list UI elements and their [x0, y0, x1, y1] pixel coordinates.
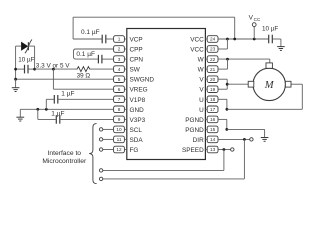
pin 1 box (left)	[114, 36, 127, 43]
pin 9 box (left)	[114, 116, 127, 123]
svg-text:CPP: CPP	[130, 47, 143, 54]
svg-text:1 µF: 1 µF	[61, 91, 74, 98]
svg-text:PGND: PGND	[185, 127, 204, 134]
pin 23 box (right)	[205, 46, 218, 53]
terminal DIR	[250, 138, 253, 141]
op-amp U1 motor driver IC body	[127, 29, 206, 160]
svg-text:VCC: VCC	[190, 47, 204, 54]
svg-text:2: 2	[118, 47, 121, 52]
wire W rail	[218, 58, 270, 60]
wire SWGND row	[16, 78, 114, 80]
pin 15 box (right)	[205, 126, 218, 133]
pin 10 box (left)	[114, 126, 127, 133]
wire pin23 join	[218, 39, 228, 49]
wire C4 to pin 7	[58, 98, 113, 100]
wire ground stem 1	[15, 79, 17, 88]
svg-text:VREG: VREG	[130, 87, 148, 94]
wire DIR drop	[243, 139, 245, 179]
junction V	[226, 83, 229, 86]
wire C3 left lead	[16, 68, 24, 70]
wire pin16 stub	[218, 119, 227, 129]
svg-text:3: 3	[118, 57, 121, 62]
svg-text:SDA: SDA	[130, 137, 144, 144]
svg-text:Microcontroller: Microcontroller	[42, 158, 87, 165]
terminal FG	[99, 148, 113, 151]
pin 22 box (right)	[205, 56, 218, 63]
junction VCC terminal	[253, 38, 256, 41]
wire DIR row	[218, 138, 250, 140]
pin 20 box (right)	[205, 76, 218, 83]
label Interface to Microcontroller	[42, 150, 87, 165]
wire VREG drop	[52, 69, 54, 89]
pin 17 box (right)	[205, 106, 218, 113]
pin 14 box (right)	[205, 136, 218, 143]
wire zener anode	[16, 45, 22, 47]
motor M1 body	[253, 68, 285, 100]
svg-text:18: 18	[210, 97, 216, 102]
svg-text:8: 8	[118, 107, 121, 112]
wire pin19 stub	[218, 88, 228, 90]
junction VREG tap	[52, 68, 55, 71]
wire pin20 stub	[218, 78, 228, 80]
wire C4 jog	[46, 99, 54, 109]
svg-text:14: 14	[210, 137, 216, 142]
junction W	[226, 58, 229, 61]
svg-text:10: 10	[116, 127, 122, 132]
pin 5 box (left)	[114, 76, 127, 83]
svg-text:4: 4	[118, 67, 121, 72]
net label VCC	[249, 14, 261, 21]
zener diode D1	[21, 40, 32, 54]
svg-text:V3P3: V3P3	[130, 117, 146, 124]
ground G3	[277, 47, 285, 51]
ground G1	[12, 88, 20, 92]
wire U rail	[227, 84, 302, 109]
junction C4-GND	[45, 108, 48, 111]
wire VREG row	[53, 88, 113, 90]
junction SPEED	[223, 148, 226, 151]
svg-text:SCL: SCL	[130, 127, 143, 134]
wire C2 to pin 3	[102, 58, 113, 60]
wire W to motor	[269, 59, 271, 63]
wire GND row	[20, 109, 113, 117]
wire C3 right lead	[29, 68, 35, 70]
terminal SDA	[99, 138, 113, 141]
svg-text:9: 9	[118, 117, 121, 122]
svg-text:V1P8: V1P8	[130, 97, 146, 104]
svg-text:17: 17	[210, 107, 216, 112]
svg-text:W: W	[198, 57, 205, 64]
capacitor C5 plates 1uF	[56, 115, 60, 124]
svg-text:M: M	[264, 80, 275, 91]
wire 3.3V rail	[34, 46, 36, 69]
svg-text:DIR: DIR	[193, 137, 204, 144]
wire pin21 join	[218, 59, 228, 69]
capacitor C2 plates	[98, 55, 102, 64]
svg-text:20: 20	[210, 77, 216, 82]
svg-text:15: 15	[210, 127, 216, 132]
terminal SPEED	[231, 148, 234, 151]
wire VCC terminal stem	[253, 26, 255, 39]
ground G2	[16, 117, 24, 121]
svg-text:16: 16	[210, 117, 216, 122]
wire zener cathode	[28, 45, 34, 47]
terminal DIR input + wire	[99, 177, 244, 180]
pin 21 box (right)	[205, 66, 218, 73]
wire C5 jog	[38, 109, 56, 119]
capacitor C4 plates 1uF	[54, 95, 58, 104]
wire VCC rail	[218, 38, 269, 40]
junction VCC pin23	[226, 38, 229, 41]
svg-text:GND: GND	[130, 107, 145, 114]
svg-text:PGND: PGND	[185, 117, 204, 124]
svg-text:24: 24	[210, 37, 216, 42]
wire SW row	[35, 68, 76, 70]
pin 6 box (left)	[114, 86, 127, 93]
svg-text:FG: FG	[130, 147, 139, 154]
motor M1 terminal left	[248, 81, 254, 87]
svg-text:CPN: CPN	[130, 57, 144, 64]
pin 3 box (left)	[114, 56, 127, 63]
junction PGND	[225, 128, 228, 131]
terminal SPEED input + wire	[99, 169, 223, 172]
wire R1 to pin 4	[91, 68, 114, 70]
svg-text:10 µF: 10 µF	[262, 26, 278, 33]
wire VCP-to-VCC top loop	[73, 17, 235, 39]
wire CPP-CPN path	[74, 49, 114, 59]
wire C6 to ground	[273, 39, 281, 47]
svg-text:V: V	[199, 87, 204, 94]
pin 16 box (right)	[205, 116, 218, 123]
svg-text:13: 13	[210, 147, 216, 152]
pin 2 box (left)	[114, 46, 127, 53]
motor M1 terminal top	[266, 63, 272, 68]
svg-text:1 µF: 1 µF	[51, 110, 64, 117]
capacitor C6 plates 10uF	[269, 35, 273, 44]
junction ground-C3	[14, 68, 17, 71]
svg-text:10 µF: 10 µF	[18, 57, 34, 64]
wire VCP row	[73, 38, 114, 40]
svg-text:VCP: VCP	[130, 37, 143, 44]
svg-text:7: 7	[118, 97, 121, 102]
svg-text:CC: CC	[254, 17, 261, 22]
svg-text:U: U	[199, 97, 204, 104]
wire C5 to pin 9	[60, 118, 113, 120]
svg-text:5: 5	[118, 77, 121, 82]
svg-text:39 Ω: 39 Ω	[77, 73, 91, 80]
svg-text:12: 12	[116, 147, 122, 152]
pin 12 box (left)	[114, 146, 127, 153]
ground G4	[261, 138, 269, 142]
svg-text:SWGND: SWGND	[130, 77, 155, 84]
svg-text:1: 1	[118, 37, 121, 42]
junction SWGND-ground	[14, 78, 17, 81]
pin 4 box (left)	[114, 66, 127, 73]
svg-text:SW: SW	[130, 67, 141, 74]
svg-text:U: U	[199, 107, 204, 114]
wire pin18 stub	[218, 99, 227, 109]
wire PGND rail	[227, 129, 265, 137]
pin 13 box (right)	[205, 146, 218, 153]
svg-text:0.1 µF: 0.1 µF	[76, 51, 95, 58]
svg-text:6: 6	[118, 87, 121, 92]
capacitor C1 plates	[102, 35, 106, 44]
terminal SCL	[99, 128, 113, 131]
svg-text:VCC: VCC	[190, 37, 204, 44]
pin 18 box (right)	[205, 96, 218, 103]
pin 7 box (left)	[114, 96, 127, 103]
wire ground rail left	[15, 46, 17, 79]
brace interface	[89, 124, 96, 184]
svg-text:21: 21	[210, 67, 216, 72]
junction 3.3V-C3	[33, 68, 36, 71]
wire SPEED row	[218, 149, 231, 151]
svg-text:19: 19	[210, 87, 216, 92]
pin 8 box (left)	[114, 106, 127, 113]
wire V join	[226, 79, 228, 89]
junction DIR	[243, 138, 246, 141]
junction C5-GND	[36, 108, 39, 111]
terminal VCC	[252, 23, 256, 27]
svg-text:SPEED: SPEED	[182, 147, 204, 154]
svg-text:W: W	[198, 67, 205, 74]
wire SPEED drop	[223, 150, 225, 171]
pin 11 box (left)	[114, 136, 127, 143]
resistor R1 39 ohm	[76, 67, 91, 72]
junction U	[226, 108, 229, 111]
svg-text:22: 22	[210, 57, 216, 62]
motor M1 terminal right	[285, 81, 291, 87]
wire V to motor	[227, 83, 248, 85]
svg-text:23: 23	[210, 47, 216, 52]
pin 24 box (right)	[205, 36, 218, 43]
svg-text:V: V	[199, 77, 204, 84]
svg-text:0.1 µF: 0.1 µF	[81, 29, 100, 36]
capacitor C3 plates 10uF	[25, 65, 29, 74]
svg-text:Interface to: Interface to	[48, 150, 82, 157]
junction VCC toploop	[233, 38, 236, 41]
pin 19 box (right)	[205, 86, 218, 93]
svg-text:11: 11	[117, 137, 122, 142]
